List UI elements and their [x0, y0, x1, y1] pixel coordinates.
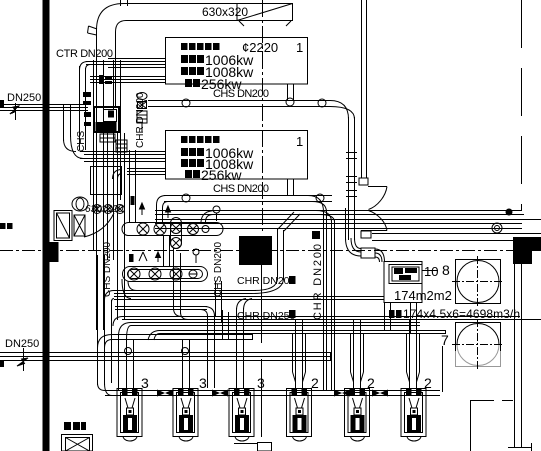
riser pair from manifold to CHR DN250 — [174, 248, 181, 314]
CHS DN200 upper pipe run — [148, 101, 330, 107]
cooling tower 8 circle — [457, 261, 499, 303]
leader arc for 630x320 label — [84, 213, 114, 237]
valve circles under heat exchanger — [93, 205, 102, 214]
S-bend risers into filter box — [346, 238, 362, 256]
chiller unit 2 capacity lines — [181, 148, 204, 178]
riser pair header to manifold — [164, 235, 170, 266]
svg-text:2: 2 — [311, 375, 319, 391]
chiller unit 2 title (CJK imitation) — [181, 136, 220, 143]
joint circle on DN250 — [125, 348, 132, 355]
duct elbow end cap — [88, 26, 98, 35]
flow arrows above upper header — [140, 203, 171, 218]
svg-text:174x4.5x6=4698m3/h: 174x4.5x6=4698m3/h — [403, 307, 520, 321]
CHS DN200 lower pipe run — [164, 196, 332, 202]
elbow inside heat exchanger — [113, 170, 123, 180]
svg-text:CHS DN200: CHS DN200 — [213, 242, 224, 297]
symbols above manifold: black tick — [129, 254, 134, 262]
flange circle on CHS run — [182, 99, 190, 107]
CHR mid elbow down — [201, 307, 215, 317]
CHR DN250 pipe run — [122, 317, 541, 335]
column blob on wall — [43, 242, 59, 262]
CHS lower right elbow down — [308, 196, 324, 213]
valve circles on upper header — [137, 223, 149, 235]
CHR DN200 pipe run (4 lines) — [114, 291, 384, 300]
svg-text:CHR DN200: CHR DN200 — [237, 275, 296, 287]
pump header pipe — [105, 346, 443, 396]
pump drop risers — [127, 320, 420, 388]
duct 630x320 horizontal band — [124, 3, 237, 5]
label sump pit (CJK imitation) — [64, 422, 86, 430]
grid dashed wall line x=521 — [521, 0, 523, 211]
riser pair short (center) — [216, 281, 229, 340]
riser foot cap — [359, 178, 368, 185]
elbow chain to CHS run — [142, 101, 147, 133]
flange with stem on run — [213, 206, 220, 213]
axial fan symbol — [72, 197, 88, 211]
DN250 pipe bottom (from left) — [0, 352, 331, 361]
heat exchanger rect below valve train — [91, 167, 122, 195]
elbow into pump header — [98, 383, 113, 396]
CHR mid pipe run — [115, 307, 207, 310]
svg-text:CHS DN200: CHS DN200 — [213, 183, 269, 195]
label air volume line (CJK prefix) — [389, 310, 402, 318]
long riser pair from top — [361, 0, 363, 178]
fitting chain flex connector — [137, 111, 147, 123]
svg-text:1: 1 — [296, 134, 303, 149]
chiller1 bottom stub — [288, 84, 294, 100]
svg-text:7: 7 — [441, 332, 449, 348]
pump P5 — [345, 389, 370, 442]
main manifold capsule — [123, 267, 208, 282]
elbow from left riser — [98, 335, 113, 349]
CHR DN250 left elbow down — [113, 317, 160, 341]
risers to towers / right side — [508, 264, 532, 451]
cooling tower 7 square — [456, 323, 501, 352]
fitting chain near riser (flange ellipse) — [137, 93, 147, 100]
svg-text:10: 10 — [424, 264, 438, 279]
upper pump feed pipe — [112, 334, 253, 340]
small fittings on wall risers — [83, 92, 91, 126]
CHS upper elbow down to riser — [330, 101, 349, 120]
grid dash-dot horizontal y=250 — [0, 250, 541, 252]
header valves (bowties) — [157, 390, 388, 397]
symbol valve stem circle — [193, 249, 199, 255]
horizontal condenser water pipes (to towers) — [155, 211, 541, 241]
elbow CTR pipe down at wall — [80, 62, 91, 71]
symbol up arrow — [156, 252, 161, 262]
svg-text:3: 3 — [199, 375, 207, 391]
duct end damper — [237, 4, 293, 27]
valve train assembly (black box on wall) — [94, 107, 119, 142]
pump P4 — [287, 389, 312, 442]
upper capsule header — [122, 223, 223, 236]
risers to pump header (4 lines) — [323, 210, 325, 390]
vertical oval strainer — [171, 218, 182, 249]
CTR riser pair along wall — [79, 66, 81, 150]
filter box outlet risers — [385, 303, 417, 334]
manifold left elbow down to CHR — [122, 279, 137, 299]
filter equipment box 174m2 — [384, 262, 438, 303]
chiller unit 2 box — [166, 131, 308, 180]
cooling tower 8 crosshair — [452, 256, 504, 308]
pump P6 — [401, 389, 426, 442]
cooling tower 7 circle — [457, 324, 499, 345]
svg-text:1: 1 — [296, 40, 303, 55]
pump drop tapers — [293, 372, 420, 382]
outlet horn lower — [361, 211, 387, 231]
tiny label left edge (CJK imitation) — [0, 223, 13, 229]
svg-text:630x320: 630x320 — [85, 204, 124, 215]
flange circle on lower CHS run — [182, 194, 190, 202]
tick mark left edge upper — [0, 100, 4, 107]
riser pair right (from CHS upper) — [348, 117, 350, 240]
cooling tower 7 crosshair — [452, 319, 504, 371]
diagonal pipe to CHR risers — [278, 212, 300, 231]
CHR DN200 elbow down to pump3 riser — [237, 299, 253, 311]
DN250 pipe top (triple line from left) — [0, 104, 88, 106]
riser pair into upper header — [130, 150, 136, 222]
horn bottom cap — [361, 231, 371, 238]
svg-text:DN250: DN250 — [7, 92, 41, 104]
fitting chain butterfly valve — [138, 102, 147, 109]
left riser bundle — [93, 60, 95, 250]
elbow wall riser to chiller2 pipes — [64, 135, 84, 159]
elbow from right run into header — [201, 211, 216, 223]
duct elbow outer curve — [97, 4, 125, 31]
pipes wall to chiller1 (CTR) — [108, 58, 165, 60]
second riser pair along wall — [63, 104, 65, 141]
svg-text:DN250: DN250 — [5, 338, 39, 350]
pump P1 — [117, 389, 142, 442]
pump P2 — [173, 389, 198, 442]
grid centerline below column — [261, 265, 263, 442]
pipes wall to chiller2 — [80, 151, 165, 153]
pipe coupling — [361, 248, 375, 258]
grid centerline vertical x=262 — [262, 0, 264, 232]
svg-text:CHS DN200: CHS DN200 — [213, 88, 269, 100]
cooling tower 8 square — [456, 260, 501, 304]
pump P3 — [229, 389, 254, 442]
fan X-box — [74, 215, 85, 236]
flange circle right upper — [506, 209, 512, 215]
duct vertical leg — [96, 30, 98, 107]
centerline end box — [258, 443, 272, 451]
outlet horn upper — [368, 187, 387, 210]
chiller unit 1 title (CJK imitation) — [181, 43, 220, 50]
flange circle on CHS run right — [318, 99, 326, 107]
sump pit box — [62, 435, 93, 451]
tick mark left edge lower — [0, 360, 4, 367]
CHS lower left elbow down — [157, 196, 167, 223]
svg-text:8: 8 — [442, 262, 450, 278]
chiller2 bottom stub — [288, 179, 294, 195]
svg-text:630x320: 630x320 — [202, 5, 248, 19]
leader arrow on DN250 — [23, 348, 25, 371]
symbol ren (person-like arrow) — [139, 252, 147, 261]
arrow on DN250 top — [15, 103, 17, 120]
black column (center, plan) — [239, 236, 272, 265]
wall (left thick black bar) — [43, 0, 50, 451]
flange circle on lower CHS run right — [316, 194, 324, 202]
svg-text:CHR DN200: CHR DN200 — [312, 244, 324, 320]
black wall corner (top right of cooling towers) — [513, 237, 541, 251]
chiller unit 1 capacity lines — [181, 55, 204, 87]
insulation hatch on left riser — [116, 140, 127, 152]
insulation hatch on riser — [346, 152, 357, 154]
svg-text:256kw: 256kw — [201, 167, 242, 183]
louvre box (wall opening) — [54, 211, 72, 241]
duct elbow inner curve — [116, 21, 127, 33]
room outline bottom right — [470, 400, 513, 451]
svg-text:3: 3 — [257, 375, 265, 391]
svg-text:CTR DN200: CTR DN200 — [56, 48, 113, 60]
duct riser stub at top — [120, 0, 122, 6]
svg-text:174m2m2: 174m2m2 — [394, 288, 452, 303]
CHR DN200 elbow up to risers — [254, 278, 278, 291]
valve fitting on CTR pipes — [99, 75, 112, 84]
black tick on riser — [131, 196, 135, 205]
flange circle right lower — [492, 223, 502, 233]
CHR DN200 left elbow down — [105, 291, 115, 303]
chiller unit 1 box — [166, 38, 308, 85]
